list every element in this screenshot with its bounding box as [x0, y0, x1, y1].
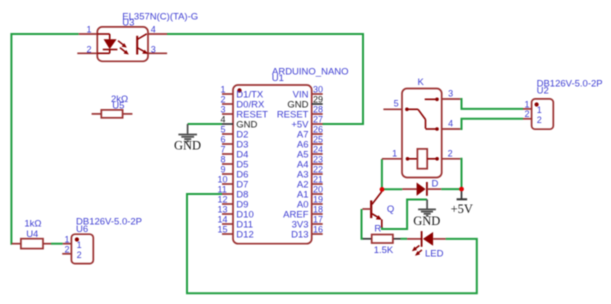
wire left rail from opto pin1 down to U4 — [11, 34, 78, 244]
U1 left pin labels — [236, 89, 268, 240]
optocoupler U3 — [77, 27, 167, 61]
U6 title DB126V-5.0-2P — [76, 217, 142, 228]
K pin number 2 — [448, 148, 453, 158]
svg-text:2: 2 — [64, 244, 69, 254]
svg-text:13: 13 — [218, 205, 228, 215]
svg-text:U4: U4 — [26, 229, 38, 240]
U3 pin number 4 — [151, 25, 156, 35]
svg-text:9: 9 — [221, 165, 226, 175]
svg-text:+5V: +5V — [451, 202, 473, 216]
U5 refdes — [112, 100, 124, 111]
svg-text:U2: U2 — [537, 86, 549, 97]
svg-text:2: 2 — [537, 115, 542, 125]
svg-text:U1: U1 — [272, 73, 284, 84]
wire relay pin4 to U2 pin2 — [460, 119, 523, 129]
U4 refdes — [26, 229, 38, 240]
K pin number 5 — [394, 99, 399, 109]
svg-text:1: 1 — [392, 148, 397, 158]
D label — [432, 179, 439, 190]
R label — [374, 224, 381, 235]
svg-text:4: 4 — [151, 25, 156, 35]
svg-text:GND: GND — [174, 139, 201, 153]
svg-text:16: 16 — [313, 225, 323, 235]
U6 outside pin number 2 — [64, 244, 69, 254]
relay K body — [382, 89, 460, 178]
svg-text:1: 1 — [537, 105, 542, 115]
K pin number 4 — [448, 119, 453, 129]
U3 pin number 1 — [86, 25, 91, 35]
svg-text:2: 2 — [77, 250, 82, 260]
wire arduino D8 pin11 loop to LED anode — [187, 194, 477, 293]
svg-text:3: 3 — [151, 44, 156, 54]
U2 inside pin label 2 — [537, 115, 542, 125]
U1 right pin labels — [277, 89, 309, 240]
svg-text:20: 20 — [313, 185, 323, 195]
svg-text:25: 25 — [313, 135, 323, 145]
svg-text:15: 15 — [218, 225, 228, 235]
svg-text:D12: D12 — [236, 229, 253, 240]
svg-text:28: 28 — [313, 105, 323, 115]
U1 left pin numbers — [218, 85, 228, 235]
U3 refdes — [122, 18, 134, 29]
U3 pin number 3 — [151, 44, 156, 54]
svg-text:U5: U5 — [112, 100, 124, 111]
arduino nano U1 body — [233, 85, 312, 244]
svg-text:12: 12 — [218, 195, 228, 205]
svg-text:3: 3 — [448, 89, 453, 99]
svg-text:2: 2 — [524, 109, 529, 119]
svg-text:K: K — [418, 77, 425, 88]
svg-text:2: 2 — [448, 148, 453, 158]
svg-text:R: R — [374, 224, 381, 235]
U3 pin number 2 — [86, 44, 91, 54]
K refdes — [418, 77, 425, 88]
svg-text:U3: U3 — [122, 18, 134, 29]
svg-text:U6: U6 — [76, 224, 88, 235]
LED label — [425, 249, 444, 260]
ground symbol near diode — [418, 200, 436, 216]
U6 inside pin label 2 — [77, 250, 82, 260]
wire transistor emitter to GND symbol — [382, 200, 427, 230]
svg-text:1: 1 — [86, 25, 91, 35]
svg-text:1: 1 — [221, 85, 226, 95]
svg-text:29: 29 — [313, 95, 323, 105]
U6 outside pin number 1 — [64, 234, 69, 244]
resistor R 1.5K — [363, 235, 401, 244]
svg-text:LED: LED — [425, 249, 444, 260]
U1 refdes — [272, 73, 284, 84]
svg-text:23: 23 — [313, 155, 323, 165]
svg-text:GND: GND — [413, 214, 440, 228]
LED — [407, 231, 446, 256]
svg-text:22: 22 — [313, 165, 323, 175]
svg-text:1.5K: 1.5K — [374, 245, 394, 256]
U4 value 1kOhm — [24, 219, 41, 230]
svg-text:19: 19 — [313, 195, 323, 205]
svg-text:2: 2 — [221, 95, 226, 105]
wire collector node to diode anode — [382, 188, 402, 190]
svg-text:5: 5 — [394, 99, 399, 109]
wire resistor U4 to connector U6 — [51, 243, 63, 245]
wire relay pin3 to U2 pin1 — [460, 99, 523, 109]
K pin number 3 — [448, 89, 453, 99]
svg-text:17: 17 — [313, 215, 323, 225]
connector U2 — [523, 99, 553, 129]
svg-text:4: 4 — [448, 119, 453, 129]
svg-text:24: 24 — [313, 145, 323, 155]
svg-text:18: 18 — [313, 205, 323, 215]
svg-text:3: 3 — [221, 105, 226, 115]
svg-text:1: 1 — [524, 99, 529, 109]
svg-text:21: 21 — [313, 175, 323, 185]
svg-text:8: 8 — [221, 155, 226, 165]
svg-text:1: 1 — [77, 240, 82, 250]
wire resistor R to LED cathode — [401, 238, 408, 240]
U2 refdes — [537, 86, 549, 97]
svg-text:4: 4 — [221, 115, 226, 125]
svg-text:26: 26 — [313, 125, 323, 135]
junction node at +5V — [459, 187, 464, 192]
U6 refdes — [76, 224, 88, 235]
wire relay pin2 to +5V node — [460, 159, 461, 189]
svg-text:27: 27 — [313, 115, 323, 125]
svg-text:11: 11 — [218, 185, 227, 195]
U3 value label EL357N(C)(TA)-G — [122, 12, 198, 23]
+5V label — [451, 202, 473, 216]
+5V power symbol — [457, 191, 468, 199]
GND label left — [174, 139, 201, 153]
svg-text:6: 6 — [221, 135, 226, 145]
U1 title ARDUINO_NANO — [272, 66, 349, 77]
U2 outside pin number 2 — [524, 109, 529, 119]
diode D — [402, 182, 441, 196]
U2 outside pin number 1 — [524, 99, 529, 109]
U1 right pin numbers — [313, 85, 323, 235]
junction node at transistor collector — [380, 187, 385, 192]
U2 inside pin label 1 — [537, 105, 542, 115]
connector U6 — [62, 234, 93, 263]
svg-text:10: 10 — [218, 175, 228, 185]
resistor U5 2kOhm — [92, 110, 133, 118]
U1 right pin stubs 30-16 — [312, 94, 323, 234]
U1 left pin stubs 1-15 — [222, 94, 233, 234]
svg-text:14: 14 — [218, 215, 228, 225]
resistor U4 1kOhm — [12, 239, 51, 249]
wire opto pin4 to arduino +5V pin27 — [167, 34, 363, 124]
svg-text:D13: D13 — [291, 229, 308, 240]
U6 inside pin label 1 — [77, 240, 82, 250]
wire transistor base to resistor R — [362, 209, 364, 239]
U2 title DB126V-5.0-2P — [537, 79, 603, 90]
svg-text:7: 7 — [221, 145, 226, 155]
wire arduino GND pin4 to ground symbol — [188, 123, 222, 125]
svg-text:1kΩ: 1kΩ — [24, 219, 41, 230]
R value 1.5K — [374, 245, 394, 256]
Q label — [387, 204, 394, 215]
svg-text:30: 30 — [313, 85, 323, 95]
GND label right — [413, 214, 440, 228]
svg-text:2: 2 — [86, 44, 91, 54]
wire relay pin1 down to transistor collector node — [381, 159, 383, 189]
K pin number 1 — [392, 148, 397, 158]
transistor Q — [362, 192, 382, 228]
svg-text:5: 5 — [221, 125, 226, 135]
ground symbol near U1 pin4 — [178, 124, 197, 141]
svg-text:1: 1 — [64, 234, 69, 244]
svg-text:D: D — [432, 179, 439, 190]
U5 value 2kOhm — [111, 94, 128, 105]
svg-text:Q: Q — [387, 204, 394, 215]
wire diode cathode to +5V node — [441, 188, 461, 190]
